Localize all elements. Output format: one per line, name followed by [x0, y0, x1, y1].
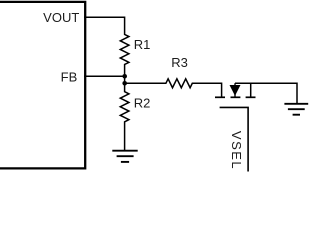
- transistor Q1 gate bar and gate lead (VSEL net): [220, 107, 249, 171]
- transistor Q1 source lead: [250, 83, 252, 96]
- svg-text:VSEL: VSEL: [229, 131, 244, 170]
- ground (right, at Q1 source): [284, 104, 308, 115]
- svg-text:R1: R1: [134, 37, 151, 52]
- transistor Q1 drain contact bar: [215, 96, 225, 98]
- wire source/body to right ground: [235, 83, 297, 103]
- svg-text:FB: FB: [61, 70, 78, 85]
- wire FB node to R3, resistor R3, wire to Q1 drain, drain lead: [125, 79, 222, 97]
- transistor Q1 body contact bar: [231, 96, 241, 98]
- transistor Q1 source contact bar: [246, 96, 256, 98]
- svg-text:R3: R3: [171, 55, 188, 70]
- svg-text:R2: R2: [134, 96, 151, 111]
- junction dot R2/R3 node: [122, 81, 127, 86]
- svg-text:VOUT: VOUT: [43, 10, 79, 25]
- pin FB wire: [84, 75, 125, 77]
- junction dot FB node: [122, 74, 127, 79]
- transistor Q1 body lead: [234, 83, 236, 96]
- transistor Q1 body arrow: [230, 86, 239, 95]
- pin VOUT wire, resistor R1, node column, resistor R2, lead to ground: [84, 17, 129, 150]
- IC box (regulator, left edge cut off): [0, 2, 85, 169]
- ground (under R2): [112, 151, 137, 162]
